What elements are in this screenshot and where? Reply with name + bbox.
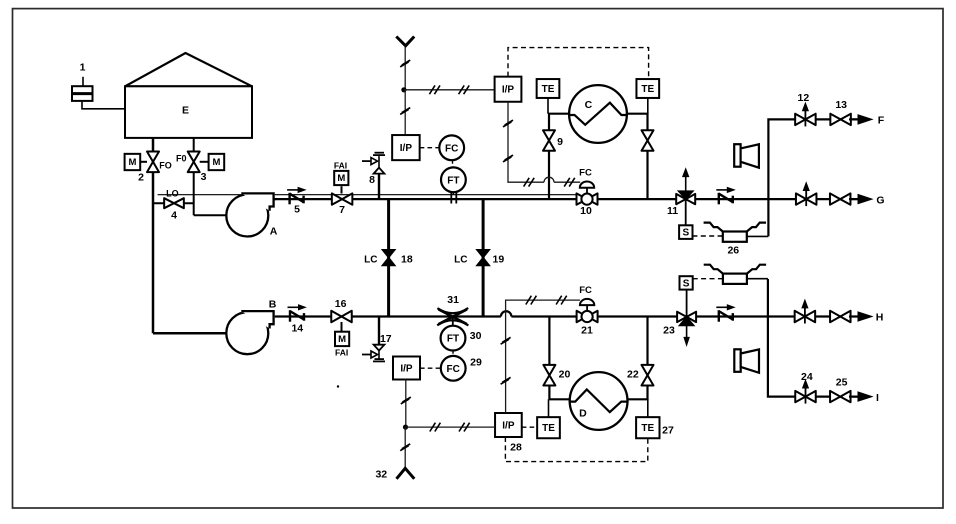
valve 18 (LC)	[364, 250, 413, 266]
svg-text:I/P: I/P	[502, 85, 515, 96]
TE right of C	[636, 79, 659, 114]
valve 13	[830, 99, 851, 125]
svg-text:F: F	[878, 115, 885, 127]
silencer 26	[704, 223, 769, 257]
svg-text:M: M	[337, 173, 345, 184]
svg-text:S: S	[682, 228, 689, 239]
horn lower	[734, 349, 759, 373]
control valve 21 (FC)	[577, 285, 598, 336]
svg-text:31: 31	[447, 294, 459, 306]
orifice plate FT	[451, 193, 456, 204]
svg-text:TE: TE	[542, 423, 555, 434]
instrument FC top	[439, 135, 464, 160]
flow element 31	[437, 294, 468, 326]
svg-text:14: 14	[291, 323, 303, 335]
signal I/P-FC29 (dashed)	[420, 367, 441, 369]
valve 7 (M, FAI)	[332, 160, 353, 216]
pipe riser LC18	[387, 199, 390, 316]
svg-text:1: 1	[80, 62, 86, 74]
heat exchanger C	[568, 85, 628, 143]
svg-text:24: 24	[801, 371, 813, 383]
outlet arrow H	[849, 312, 883, 324]
valve 16 (M, FAI)	[331, 298, 352, 387]
svg-text:29: 29	[470, 357, 482, 369]
svg-text:28: 28	[510, 442, 522, 454]
svg-text:23: 23	[663, 324, 675, 336]
svg-text:LC: LC	[364, 254, 377, 265]
svg-text:E: E	[182, 105, 189, 117]
signal wire junction to I/P 28	[406, 423, 496, 432]
pipe branch F riser	[768, 119, 858, 236]
svg-text:D: D	[579, 408, 587, 420]
valve 19 (LC)	[454, 250, 504, 266]
svg-text:FT: FT	[447, 334, 459, 345]
svg-text:M: M	[338, 334, 346, 345]
outlet arrow F	[849, 115, 885, 127]
instrument 1 (level device)	[72, 62, 125, 109]
svg-text:M: M	[128, 157, 136, 168]
control valve H	[795, 300, 816, 323]
svg-text:19: 19	[493, 253, 505, 265]
pipe heat exchanger D right leg	[622, 317, 648, 400]
I/P transducer lower left	[393, 357, 420, 380]
svg-text:I: I	[876, 392, 879, 404]
valve C right (unnumbered)	[642, 130, 654, 151]
horn upper	[734, 144, 759, 168]
svg-text:FT: FT	[447, 175, 459, 186]
I/P transducer mid	[392, 135, 420, 160]
control valve 12	[795, 92, 816, 126]
svg-text:16: 16	[335, 298, 347, 310]
I/P transducer top	[495, 77, 522, 102]
node junction dot top	[401, 87, 406, 92]
svg-text:FC: FC	[447, 364, 460, 375]
svg-text:C: C	[585, 99, 593, 111]
svg-text:3: 3	[201, 171, 207, 183]
pipe crossover valve 4	[153, 202, 194, 204]
signal wire junction to I/P top	[404, 85, 495, 94]
pipe tank outlet to valve 3 / down to pump A suction	[193, 138, 195, 215]
check valve 5	[287, 187, 305, 215]
svg-text:12: 12	[798, 92, 810, 104]
svg-text:FC: FC	[579, 285, 592, 296]
svg-text:4: 4	[171, 210, 177, 222]
svg-text:F0: F0	[176, 154, 187, 164]
control valve G	[796, 183, 817, 206]
svg-text:TE: TE	[641, 423, 654, 434]
svg-text:M: M	[212, 157, 220, 168]
svg-text:13: 13	[835, 99, 847, 111]
svg-text:8: 8	[369, 174, 375, 186]
outlet arrow G	[849, 194, 885, 206]
svg-text:30: 30	[470, 330, 482, 342]
valve 25	[830, 377, 851, 403]
relief valve 17	[362, 317, 392, 362]
solenoid S of valve 11	[679, 199, 692, 239]
check valve bottom right	[716, 305, 734, 322]
valve 20	[543, 365, 570, 386]
TE left of D	[537, 399, 560, 438]
pipe riser LC19	[482, 199, 485, 316]
signal I/P29 down to junction	[401, 380, 411, 428]
dashed box top	[508, 48, 649, 80]
signal S to 26 (dashed)	[692, 235, 722, 237]
tank E	[125, 53, 252, 138]
svg-text:26: 26	[727, 244, 739, 256]
pipe pump B suction horizontal	[153, 332, 250, 335]
pipe heat exchanger D left leg	[549, 317, 575, 400]
svg-text:FAI: FAI	[335, 347, 348, 357]
signal I/P mid - FC (dashed)	[420, 147, 440, 149]
instrument FT 30	[441, 326, 482, 351]
control valve 10 (FC)	[577, 168, 598, 218]
valve 4 (LO)	[164, 188, 184, 221]
check valve 14	[288, 305, 306, 335]
valve 22	[627, 365, 653, 386]
valve G	[830, 193, 851, 204]
pump A	[226, 193, 277, 237]
svg-text:10: 10	[580, 205, 592, 217]
pipe heat exchanger C left leg	[549, 114, 575, 199]
signal wire down to vent 32	[400, 427, 410, 468]
svg-text:I/P: I/P	[502, 420, 515, 431]
pipe bottom main header	[274, 311, 858, 316]
instrument FT top	[441, 167, 466, 195]
svg-text:LC: LC	[454, 254, 467, 265]
pipe top main header	[274, 198, 858, 200]
pump B	[226, 299, 276, 355]
svg-text:FC: FC	[579, 168, 592, 179]
pipe branch I riser	[768, 279, 858, 397]
svg-text:G: G	[876, 194, 884, 206]
three-way valve 11	[667, 169, 695, 217]
signal I/P28-TE (dashed)	[522, 426, 537, 428]
svg-text:LO: LO	[166, 188, 179, 198]
heat exchanger D	[569, 372, 629, 430]
relief valve 8	[362, 153, 385, 199]
svg-text:9: 9	[557, 136, 563, 148]
svg-text:22: 22	[627, 369, 639, 381]
valve 3 (M, FO)	[176, 152, 224, 184]
instrument FC 29	[441, 356, 482, 381]
check valve top right	[716, 187, 734, 204]
svg-text:11: 11	[667, 205, 678, 217]
svg-text:21: 21	[581, 324, 593, 336]
pipe tank outlet to valve 2 / down to pump B suction	[152, 138, 155, 333]
signal I/P28 to valve 21	[501, 296, 580, 413]
svg-text:H: H	[876, 312, 884, 324]
signal I/P top to valve 10	[503, 102, 580, 187]
signal FC-FT top (dashed)	[452, 160, 454, 167]
svg-text:5: 5	[294, 204, 300, 216]
svg-text:20: 20	[559, 369, 571, 381]
valve 9	[543, 130, 563, 151]
TE left of C	[537, 79, 560, 114]
svg-text:27: 27	[662, 425, 674, 437]
svg-text:FC: FC	[445, 143, 458, 154]
svg-text:A: A	[270, 226, 278, 238]
valve H	[830, 311, 851, 322]
three-way valve 23	[663, 312, 696, 346]
valve 2 (M, FO)	[125, 152, 172, 184]
svg-text:17: 17	[380, 333, 392, 345]
signal S to lower silencer (dashed)	[693, 278, 723, 280]
I/P transducer 28	[495, 413, 522, 454]
svg-text:FO: FO	[159, 161, 172, 171]
svg-text:FAI: FAI	[334, 160, 347, 170]
outlet arrow I	[849, 392, 879, 404]
signal FT30-FC29 (dashed)	[452, 350, 454, 356]
solenoid S of valve 23	[680, 276, 693, 317]
svg-text:7: 7	[339, 204, 345, 216]
node junction dot bottom	[403, 425, 408, 430]
vent to atmosphere (top)	[396, 37, 414, 90]
svg-text:S: S	[683, 278, 690, 289]
thin parallel line above top header	[158, 194, 577, 196]
svg-text:I/P: I/P	[400, 143, 413, 154]
TE 27	[636, 399, 674, 438]
svg-text:TE: TE	[641, 84, 654, 95]
signal wire junction down to I/P mid	[400, 90, 410, 135]
svg-text:25: 25	[836, 377, 848, 389]
pipe pump A suction horizontal	[194, 214, 250, 216]
svg-text:18: 18	[401, 253, 413, 265]
silencer lower	[704, 265, 768, 284]
signal I/P28 to TE27 (dashed loop)	[505, 437, 647, 462]
svg-text:I/P: I/P	[400, 363, 413, 374]
svg-text:B: B	[269, 299, 277, 311]
svg-text:32: 32	[375, 469, 387, 481]
vent to atmosphere 32	[375, 468, 414, 480]
control valve 24	[795, 371, 816, 403]
pipe heat exchanger C right leg	[622, 114, 648, 199]
svg-text:2: 2	[138, 172, 144, 184]
svg-text:TE: TE	[542, 84, 555, 95]
label A pump outlet pipe	[274, 198, 276, 200]
